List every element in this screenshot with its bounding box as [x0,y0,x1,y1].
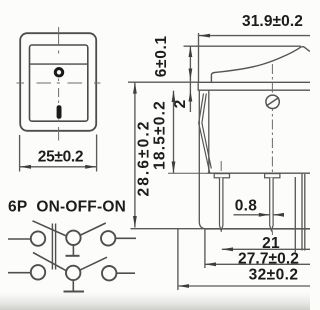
terminal cover outline [199,91,310,229]
dim 6 dimension line [189,46,191,80]
screw / middle pin centerline [271,64,273,235]
dim 27.7 dimension line [205,263,310,265]
O symbol [55,69,62,76]
dim 31.9 dimension line [199,35,311,37]
dim 18.5 dimension line [173,91,175,173]
schematic row1 left contact arm [33,221,67,236]
svg-text:6P ON-OFF-ON: 6P ON-OFF-ON [8,198,126,215]
pin 2 shank [270,178,273,231]
svg-text:27.7±0.2: 27.7±0.2 [238,250,299,267]
schematic row1 left lead [8,238,31,240]
dim 25 dimension line [20,166,97,168]
latch wing outer [199,94,210,174]
dim 21 dimension line [222,248,310,250]
schematic row2 right terminal [102,266,116,280]
front view outer body [20,33,96,131]
I symbol [57,105,62,119]
pin 3 partial lines at right [301,174,303,251]
screw slot [266,98,279,107]
body left wall [208,90,210,173]
schematic row2 common bar [64,291,85,293]
svg-text:28.6±0.2: 28.6±0.2 [136,119,153,196]
pin 1 shank [220,178,223,231]
dim 21 right extension line [294,177,296,253]
dim 25 left extension line [19,135,21,172]
dim 31.9 left extension line [198,33,200,82]
svg-text:31.9±0.2: 31.9±0.2 [242,13,303,30]
schematic row2 left contact arm [33,253,66,271]
dim 32 dimension line [178,285,310,287]
schematic row2 middle terminal [66,266,80,280]
schematic row2 common stem [72,281,74,291]
rocker actuator profile [211,47,310,83]
svg-text:25±0.2: 25±0.2 [38,148,84,165]
body bottom line [208,172,311,174]
dim 0.8 left line [234,214,270,216]
svg-text:0.8: 0.8 [235,198,258,215]
flange top extension to left [128,81,198,83]
schematic row1 right terminal [101,231,115,245]
schematic row2 left terminal [31,265,45,279]
left pin centerline [220,161,222,235]
dim 0.8 right line [273,214,284,216]
body bottom extension to left [168,172,208,174]
dim 27.7 left extension line [204,229,206,268]
schematic row1 common stem [72,246,74,255]
schematic row1 left terminal [31,231,45,245]
schematic row1 right contact arm [81,223,106,235]
dim 2 lower arrow line [189,90,191,112]
schematic row2 right lead [117,272,135,274]
schematic row1 right lead [116,237,136,239]
vertical centerline front view [58,27,60,141]
schematic row1 middle terminal [66,231,80,245]
pin 1 head [214,174,229,178]
scan shadow at bottom edge [0,292,310,310]
dim 28.6 dimension line [134,82,136,227]
dim line continuation through flange [189,79,191,91]
schematic row2 right contact arm [81,257,108,270]
rocker top extension line (6 dim) [184,45,302,47]
mechanical link double line [51,224,53,270]
flange (mounting bezel) [198,82,310,90]
horizontal centerline front view [17,82,101,84]
dim 25 right extension line [96,135,98,172]
latch wing inner [202,94,211,169]
bottom extension line (pin tips level) [131,228,311,230]
rocker divider line [30,63,88,65]
pin 2 head [265,174,280,178]
schematic row2 left lead [8,272,31,274]
front view rocker face [30,45,88,121]
svg-text:32±0.2: 32±0.2 [249,266,299,283]
dim 32 left extension line [177,229,179,290]
schematic row1 common bar [66,255,80,257]
svg-text:18.5±0.2: 18.5±0.2 [152,100,169,170]
screw head [266,95,279,108]
svg-text:6±0.1: 6±0.1 [153,35,170,77]
